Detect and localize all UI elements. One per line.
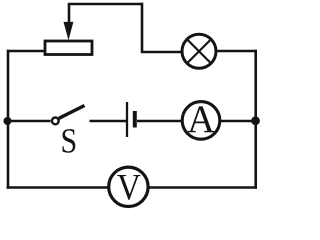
label S xyxy=(63,129,76,153)
voltmeter V xyxy=(109,167,148,206)
wire ammeter to right rail xyxy=(220,120,256,123)
ammeter A xyxy=(182,102,220,140)
wire step corner to lamp xyxy=(141,51,182,54)
wire battery to ammeter xyxy=(137,120,182,123)
switch S xyxy=(52,106,85,125)
lamp xyxy=(182,34,216,68)
wire right vertical rail xyxy=(254,50,257,189)
battery cell xyxy=(127,102,135,137)
wire lamp to right corner xyxy=(216,50,257,53)
wire bottom left segment xyxy=(7,186,108,189)
rheostat slider arrow xyxy=(64,3,74,40)
wire middle row: rail to switch pivot xyxy=(8,120,51,123)
node junction right xyxy=(251,116,260,125)
wire vertical step at top right of rheostat xyxy=(141,3,144,53)
wire switch fixed contact to battery xyxy=(90,120,127,123)
resistor (rheostat) R xyxy=(45,41,92,55)
wire rheostat left terminal to left rail xyxy=(7,50,44,53)
node junction left xyxy=(4,117,12,125)
wire bottom right segment xyxy=(149,186,257,189)
wire left vertical rail xyxy=(7,50,10,189)
wire top horizontal (slider to right corner) xyxy=(68,3,143,6)
